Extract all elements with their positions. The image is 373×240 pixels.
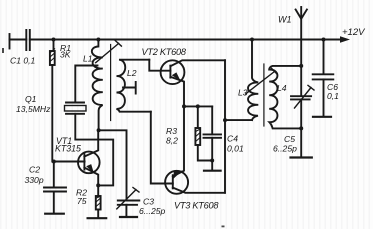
- input terminal: [9, 34, 11, 49]
- L2 tap terminal: [123, 82, 136, 94]
- svg-text:+12V: +12V: [342, 27, 366, 38]
- node base VT1: [52, 160, 56, 164]
- ground C4: [211, 161, 213, 171]
- node antenna / L4 top: [299, 64, 303, 68]
- wire L2 top to VT2 base: [149, 60, 170, 71]
- antenna W1: [300, 7, 302, 66]
- capacitor C4: [211, 106, 213, 134]
- VT2 collector: [170, 60, 225, 66]
- svg-text:8,2: 8,2: [166, 136, 178, 146]
- wire collector node to C3: [99, 130, 127, 200]
- L1 adjust arrow: [96, 41, 122, 63]
- wire C1 to node: [30, 39, 54, 41]
- capacitor C2: [53, 162, 55, 188]
- svg-text:C1 0,1: C1 0,1: [10, 56, 36, 66]
- wire VT2 collector down / VT3 emitter up: [224, 60, 226, 193]
- node L3 bottom feed: [223, 118, 227, 122]
- svg-text:75: 75: [77, 196, 87, 206]
- wire emitter node to C4: [184, 105, 212, 107]
- crystal Q1: [66, 102, 84, 104]
- transistor VT2: [161, 60, 185, 84]
- svg-text:R3: R3: [166, 126, 177, 136]
- node VT2 emitter: [182, 104, 186, 108]
- inductor L4: [269, 66, 301, 128]
- L3/L4 core: [263, 64, 265, 126]
- node L1 rail: [96, 38, 100, 42]
- svg-text:L1: L1: [83, 54, 93, 64]
- capacitor C3 (trimmer): [118, 201, 140, 205]
- svg-text:6..25p: 6..25p: [273, 144, 297, 154]
- svg-text:VT3 KT608: VT3 KT608: [174, 201, 219, 211]
- svg-text:L4: L4: [277, 83, 287, 93]
- transistor VT1: [78, 152, 100, 174]
- node C4 bottom: [210, 159, 214, 163]
- node R3: [196, 104, 200, 108]
- L3/L4 adjust arrow: [246, 68, 278, 94]
- wire L2 bottom to VT3 base: [151, 112, 173, 184]
- svg-text:C3: C3: [143, 197, 154, 207]
- svg-text:0,01: 0,01: [227, 144, 244, 154]
- svg-text:L2: L2: [127, 68, 137, 78]
- svg-text:330p: 330p: [25, 175, 44, 185]
- resistor R2: [97, 185, 99, 196]
- ground C2: [45, 213, 64, 215]
- scan specks: [2, 48, 225, 227]
- wire crystal bottom to emitter loop: [75, 114, 113, 186]
- inductor L2: [117, 60, 151, 112]
- node emitter VT1: [96, 183, 100, 187]
- node collector VT1: [97, 128, 101, 132]
- top +12V rail: [54, 39, 342, 41]
- node rail/R1: [52, 38, 56, 42]
- wire base node to VT1: [54, 161, 85, 163]
- ground C6: [313, 116, 331, 118]
- svg-text:VT2 KT608: VT2 KT608: [142, 47, 187, 57]
- capacitor C1: [26, 30, 30, 50]
- wire input to C1: [10, 39, 27, 41]
- capacitor C6: [323, 40, 325, 75]
- node L3 rail: [250, 38, 254, 42]
- inductor L1: [92, 40, 103, 131]
- L1/L2 core: [110, 45, 112, 121]
- svg-text:6...25p: 6...25p: [139, 206, 166, 216]
- resistor R3: [197, 106, 199, 128]
- svg-text:13,5MHz: 13,5MHz: [16, 104, 51, 114]
- svg-text:0,1: 0,1: [327, 91, 339, 101]
- svg-text:C5: C5: [284, 134, 295, 144]
- svg-text:Q1: Q1: [25, 94, 37, 104]
- svg-text:3K: 3K: [60, 50, 72, 60]
- svg-text:C2: C2: [29, 165, 40, 175]
- svg-text:C4: C4: [227, 134, 238, 144]
- wire node to L3: [225, 119, 252, 121]
- svg-text:W1: W1: [278, 15, 292, 25]
- ground R2: [88, 217, 107, 219]
- capacitor C5 (trimmer): [300, 66, 302, 96]
- VT2 emitter: [170, 77, 184, 107]
- svg-text:KT315: KT315: [55, 144, 81, 154]
- ground C3: [120, 216, 137, 218]
- ground C5: [300, 128, 302, 156]
- inductor L3: [248, 40, 258, 121]
- transistor VT3: [165, 171, 188, 194]
- node L4 bottom / C5: [299, 126, 303, 130]
- wire crystal top to L1 tap: [75, 66, 97, 103]
- resistor R1: [53, 40, 55, 52]
- node C6 rail: [322, 38, 326, 42]
- +12V arrow head: [340, 36, 350, 43]
